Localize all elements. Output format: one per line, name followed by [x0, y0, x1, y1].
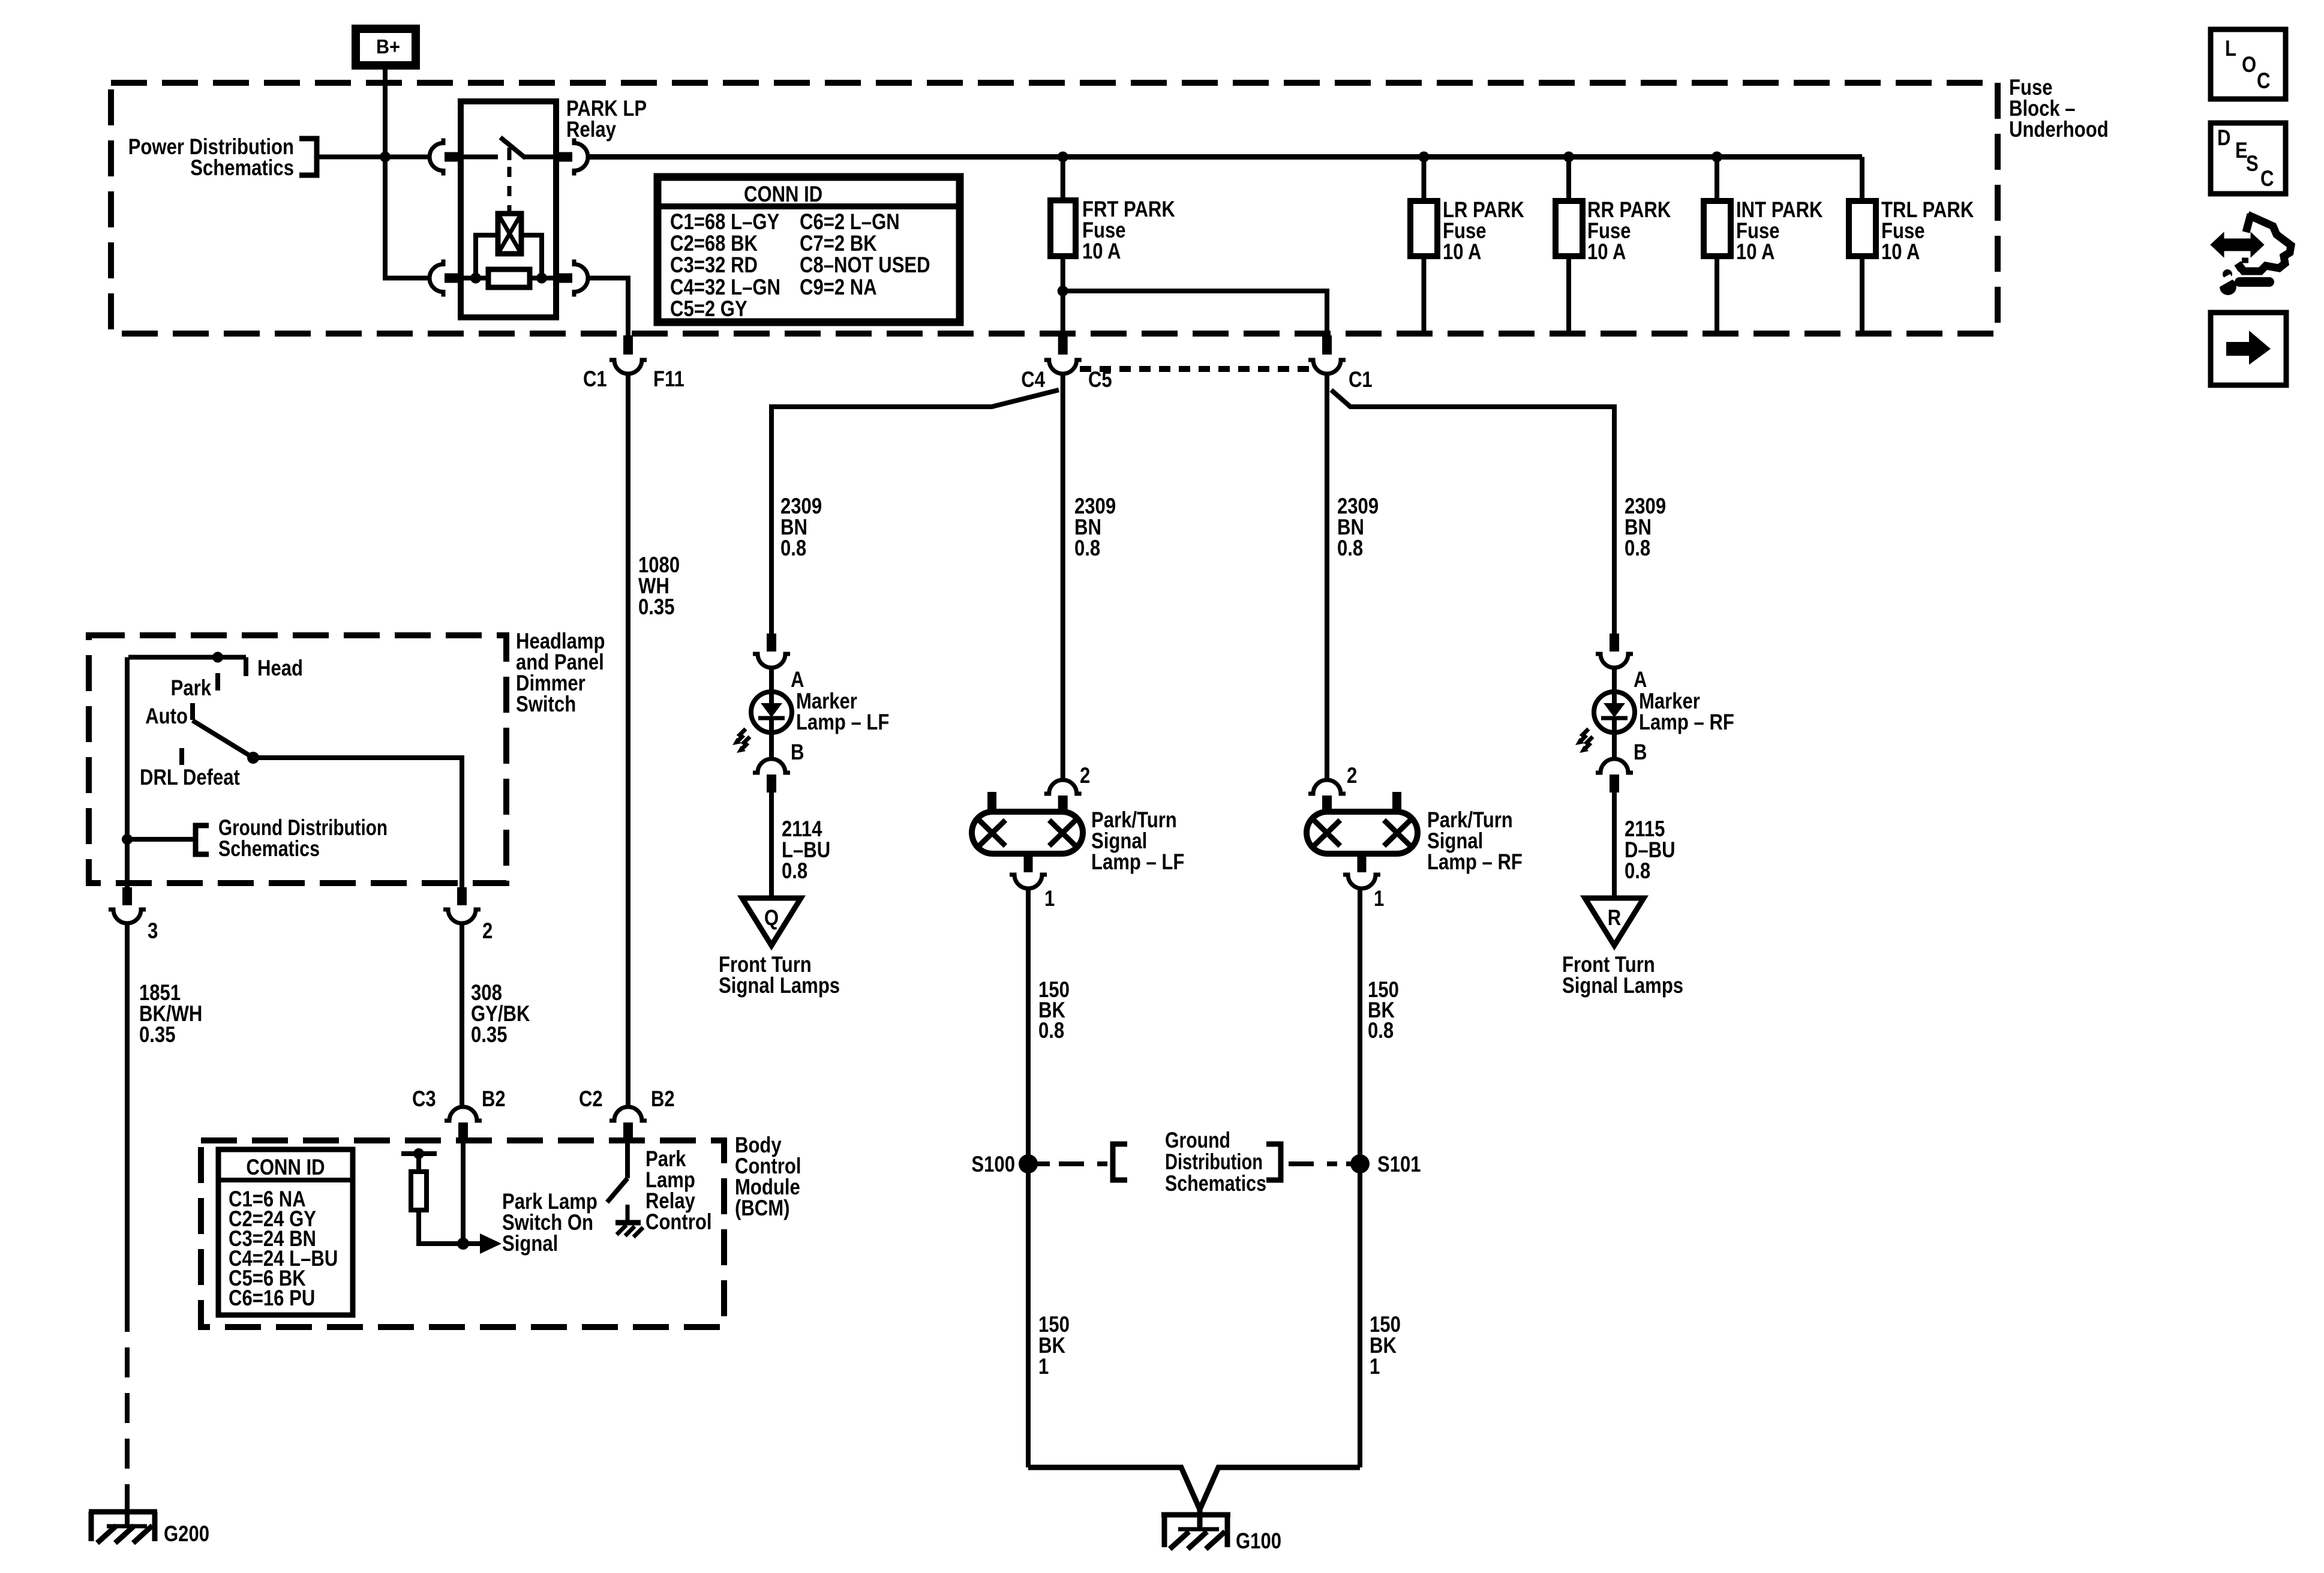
- svg-text:Relay: Relay: [566, 117, 616, 142]
- connector C1/F11 fuse block output: [609, 335, 647, 374]
- svg-text:C2=68 BK: C2=68 BK: [670, 231, 758, 256]
- node ground distribution tap: [122, 834, 133, 845]
- marker lamp LF (LED symbol): [751, 692, 792, 733]
- label Ground Distribution Schematics (center): [1165, 1128, 1266, 1196]
- arrow park lamp switch on signal: [480, 1233, 502, 1254]
- svg-text:1: 1: [1044, 886, 1055, 911]
- node main B+ junction: [380, 152, 391, 163]
- svg-text:C6=16 PU: C6=16 PU: [229, 1286, 315, 1310]
- label LR PARK Fuse 10 A: [1443, 197, 1524, 264]
- connector B marker lamp LF: [753, 759, 790, 792]
- svg-text:Park: Park: [171, 676, 212, 700]
- label Marker Lamp - RF: [1639, 689, 1734, 734]
- svg-text:B: B: [1634, 740, 1647, 764]
- svg-text:C2: C2: [579, 1086, 603, 1111]
- label Park/Turn Signal Lamp - RF: [1427, 807, 1523, 874]
- svg-text:DRL Defeat: DRL Defeat: [140, 765, 240, 789]
- connector relay pin 1 (switch input): [430, 139, 461, 176]
- node below FRT PARK fuse: [1058, 286, 1068, 296]
- wire 1851 dashed part: [125, 1347, 130, 1495]
- svg-text:Ground: Ground: [1165, 1128, 1230, 1152]
- LR PARK fuse: [1410, 152, 1437, 334]
- label Park/Turn Signal Lamp - LF: [1091, 807, 1184, 874]
- BCM pull-up resistor: [401, 1148, 480, 1244]
- wire 2115 to R: [1612, 792, 1617, 900]
- svg-text:F11: F11: [653, 367, 684, 391]
- svg-text:C5=2 GY: C5=2 GY: [670, 296, 747, 321]
- headlamp and panel dimmer switch dashed box: [89, 635, 506, 883]
- off-page triangle R: [1585, 898, 1644, 945]
- label Front Turn Signal Lamps (right): [1562, 952, 1683, 998]
- icon forward arrow box: [2211, 313, 2286, 385]
- svg-text:1: 1: [1374, 886, 1384, 911]
- connector 1 park/turn RF: [1343, 853, 1380, 888]
- connector 3 headlamp switch: [109, 887, 146, 923]
- svg-text:C9=2 NA: C9=2 NA: [800, 275, 877, 299]
- svg-text:0.8: 0.8: [1337, 536, 1363, 560]
- svg-text:C: C: [2260, 166, 2274, 191]
- label wire 150 BK 0.8 (LF): [1038, 977, 1070, 1043]
- svg-text:D: D: [2217, 125, 2231, 150]
- bracket for power distribution reference: [299, 139, 317, 175]
- svg-text:Q: Q: [764, 905, 779, 930]
- svg-text:0.8: 0.8: [1625, 536, 1650, 560]
- wire B+ vertical into fuse block: [385, 70, 428, 278]
- icon vehicle front with arrow and wrench: [2212, 214, 2291, 295]
- label wire 1851 BK/WH 0.35: [139, 980, 202, 1047]
- body control module dashed box: [201, 1140, 724, 1327]
- wire main bus from relay output to fuses: [590, 154, 1862, 160]
- dashed link S100 to ground distribution: [1028, 1161, 1107, 1166]
- node park lamp switch on: [457, 1238, 469, 1250]
- FRT PARK fuse: [1050, 152, 1076, 336]
- svg-text:Lamp – LF: Lamp – LF: [796, 710, 889, 734]
- svg-text:C: C: [2257, 68, 2271, 93]
- lower CONN ID table: [218, 1149, 353, 1315]
- svg-text:A: A: [791, 667, 804, 692]
- label Marker Lamp - LF: [796, 689, 889, 734]
- svg-text:Switch: Switch: [516, 692, 576, 716]
- svg-text:10 A: 10 A: [1587, 239, 1626, 264]
- dashed link ground distribution to S101: [1289, 1161, 1360, 1166]
- icon LOC box: [2211, 29, 2286, 99]
- svg-text:Lamp – RF: Lamp – RF: [1427, 849, 1523, 874]
- svg-text:2: 2: [1080, 763, 1090, 788]
- svg-text:10 A: 10 A: [1736, 239, 1775, 264]
- label wire 308 GY/BK 0.35: [471, 980, 530, 1047]
- wire C2 into BCM: [625, 1139, 630, 1178]
- svg-text:2: 2: [482, 918, 493, 943]
- label Front Turn Signal Lamps (left): [719, 952, 840, 998]
- svg-text:0.35: 0.35: [638, 595, 675, 619]
- wire B2 to park lamp switch-on node: [461, 1139, 466, 1244]
- label INT PARK Fuse 10 A: [1736, 197, 1823, 264]
- svg-text:B2: B2: [651, 1086, 675, 1111]
- svg-text:Lamp – RF: Lamp – RF: [1639, 710, 1734, 734]
- svg-text:0.35: 0.35: [139, 1022, 176, 1047]
- svg-text:G100: G100: [1236, 1529, 1281, 1553]
- off-page triangle Q: [742, 898, 801, 945]
- label Ground Distribution Schematics (switch): [218, 815, 388, 861]
- wire power distribution feed: [317, 155, 428, 160]
- svg-text:C8–NOT USED: C8–NOT USED: [800, 253, 930, 277]
- svg-text:Signal: Signal: [502, 1231, 558, 1256]
- relay switch contacts: [461, 137, 556, 160]
- svg-text:0.8: 0.8: [1074, 536, 1100, 560]
- svg-text:0.35: 0.35: [471, 1022, 508, 1047]
- svg-text:C1=68 L–GY: C1=68 L–GY: [670, 209, 780, 234]
- svg-text:0.8: 0.8: [1368, 1018, 1394, 1043]
- svg-text:C3=32 RD: C3=32 RD: [670, 253, 758, 277]
- svg-text:Auto: Auto: [145, 704, 188, 728]
- splice S100: [971, 1152, 1038, 1176]
- label FRT PARK Fuse 10 A: [1082, 197, 1175, 263]
- relay suppression resistor: [488, 269, 530, 287]
- wire to ground distribution bracket: [127, 837, 196, 842]
- connector C3/B2 BCM: [445, 1107, 482, 1139]
- wire 150 RF down to S101: [1358, 888, 1362, 1467]
- B+ terminal box: [356, 29, 416, 65]
- svg-text:G200: G200: [164, 1521, 209, 1546]
- park/turn signal lamp RF body: [1307, 792, 1418, 854]
- svg-text:Lamp – LF: Lamp – LF: [1091, 849, 1184, 874]
- switch position DRL Defeat: [140, 748, 240, 789]
- INT PARK fuse: [1704, 152, 1731, 334]
- wire relay coil output to F11: [590, 278, 628, 336]
- svg-text:Signal Lamps: Signal Lamps: [719, 973, 840, 998]
- svg-text:1: 1: [1038, 1354, 1049, 1379]
- wire 2114 to Q: [769, 792, 774, 900]
- connector 2 park/turn RF: [1308, 780, 1346, 812]
- relay coil (box with X): [498, 214, 521, 254]
- svg-text:R: R: [1608, 905, 1622, 930]
- wire LED RF to connector B: [1612, 733, 1617, 760]
- fuse block - underhood dashed box: [111, 83, 1998, 334]
- svg-text:Distribution: Distribution: [1165, 1149, 1263, 1174]
- TRL PARK fuse: [1849, 157, 1876, 334]
- LED light arrows RF: [1575, 729, 1593, 753]
- label wire 2309 BN 0.8 (park/turn RF): [1337, 494, 1379, 560]
- wire LED LF to connector B: [769, 733, 774, 760]
- svg-text:CONN ID: CONN ID: [246, 1155, 325, 1179]
- svg-text:2: 2: [1347, 763, 1357, 788]
- ground G100: [1161, 1515, 1230, 1549]
- svg-text:C4: C4: [1021, 367, 1045, 392]
- label wire 2309 BN 0.8 (marker LF): [780, 494, 822, 560]
- label wire 150 BK 1 (left): [1038, 1312, 1070, 1379]
- wire C4 branch to marker lamp LF: [771, 390, 1059, 634]
- bracket ground distribution left: [1113, 1144, 1127, 1180]
- wire 308 down to BCM C3: [460, 923, 464, 1106]
- connector relay pin 3 (switch output): [556, 139, 588, 176]
- wire C1 branch to park/turn RF: [1325, 374, 1329, 780]
- relay coil row wires: [461, 273, 556, 284]
- connector 1 park/turn LF: [1010, 853, 1047, 888]
- wire C5 branch to park/turn LF: [1061, 374, 1065, 780]
- RR PARK fuse: [1556, 152, 1583, 334]
- label wire 150 BK 0.8 (RF): [1368, 977, 1399, 1043]
- svg-text:10 A: 10 A: [1082, 239, 1121, 263]
- svg-text:Schematics: Schematics: [1165, 1171, 1266, 1196]
- wire C1 branch to marker lamp RF: [1331, 390, 1614, 634]
- svg-text:1: 1: [1370, 1354, 1380, 1379]
- relay actuator dashed link: [508, 167, 512, 214]
- bracket ground distribution right: [1266, 1144, 1281, 1180]
- svg-text:C4=32 L–GN: C4=32 L–GN: [670, 275, 780, 299]
- label Fuse Block - Underhood: [2009, 75, 2109, 142]
- svg-text:Schematics: Schematics: [218, 836, 320, 861]
- BCM internal ground: [615, 1205, 643, 1237]
- svg-text:A: A: [1634, 667, 1647, 692]
- svg-text:B2: B2: [482, 1086, 506, 1111]
- svg-text:B: B: [791, 740, 804, 764]
- dotted connector row C5 to C1: [1080, 366, 1311, 372]
- connector C2/B2 BCM: [609, 1107, 647, 1139]
- connector C1 under fuse block right: [1308, 335, 1346, 374]
- wire 1851 solid part: [125, 923, 130, 1332]
- connector relay pin 2 (coil supply): [430, 260, 461, 297]
- switch wiper: [193, 721, 462, 887]
- marker lamp RF (LED symbol): [1594, 692, 1635, 733]
- label wire 2114 L-BU 0.8: [782, 816, 830, 883]
- connector A marker lamp RF: [1596, 634, 1633, 668]
- svg-text:C6=2 L–GN: C6=2 L–GN: [800, 209, 900, 234]
- switch feed wire: [127, 652, 246, 888]
- LED light arrows LF: [732, 729, 750, 753]
- svg-text:10 A: 10 A: [1443, 239, 1482, 264]
- upper CONN ID table: [657, 177, 960, 322]
- connector 2 headlamp switch: [443, 887, 481, 923]
- svg-text:10 A: 10 A: [1881, 239, 1920, 264]
- wire to LED LF: [769, 668, 774, 693]
- label Body Control Module (BCM): [735, 1133, 801, 1220]
- icon DESC box: [2211, 123, 2286, 194]
- svg-text:S101: S101: [1377, 1152, 1421, 1176]
- svg-text:O: O: [2242, 52, 2256, 77]
- label TRL PARK Fuse 10 A: [1881, 197, 1974, 264]
- connector relay pin 4 (coil output): [556, 260, 588, 297]
- label wire 2115 D-BU 0.8: [1625, 816, 1676, 883]
- svg-text:C7=2 BK: C7=2 BK: [800, 231, 877, 256]
- svg-text:0.8: 0.8: [780, 536, 806, 560]
- svg-text:C1: C1: [1349, 367, 1373, 392]
- svg-text:0.8: 0.8: [1038, 1018, 1064, 1043]
- connector 2 park/turn LF: [1044, 780, 1082, 812]
- svg-text:(BCM): (BCM): [735, 1196, 790, 1220]
- svg-text:S: S: [2246, 151, 2259, 176]
- label Headlamp and Panel Dimmer Switch: [516, 629, 605, 716]
- label Park Lamp Relay Control: [645, 1146, 712, 1234]
- relay coil bypass loop: [476, 235, 542, 278]
- svg-text:Schematics: Schematics: [190, 155, 294, 180]
- wire 150 LF down to S100: [1026, 888, 1031, 1467]
- svg-text:Signal Lamps: Signal Lamps: [1562, 973, 1683, 998]
- svg-text:C1: C1: [583, 367, 607, 391]
- switch position Head: [246, 656, 303, 680]
- label PARK LP Relay: [566, 96, 647, 142]
- svg-text:0.8: 0.8: [782, 858, 807, 883]
- label Power Distribution Schematics: [128, 134, 294, 180]
- label wire 150 BK 1 (right): [1370, 1312, 1401, 1379]
- ground G200: [89, 1512, 157, 1543]
- switch position Auto: [145, 703, 193, 728]
- svg-text:Control: Control: [645, 1209, 712, 1234]
- splice S101: [1350, 1152, 1421, 1176]
- svg-text:B+: B+: [376, 35, 400, 58]
- svg-text:Head: Head: [257, 656, 303, 680]
- wire 1080 from F11 down to BCM C2: [626, 374, 630, 1106]
- connector A marker lamp LF: [753, 634, 790, 668]
- bracket ground distribution (switch): [196, 825, 209, 854]
- label RR PARK Fuse 10 A: [1587, 197, 1671, 264]
- svg-text:CONN ID: CONN ID: [744, 182, 822, 206]
- label Park Lamp Switch On Signal: [502, 1189, 597, 1256]
- wire to LED RF: [1612, 668, 1617, 693]
- svg-text:Underhood: Underhood: [2009, 117, 2109, 142]
- wire bottom bus to G100: [1028, 1467, 1360, 1529]
- svg-text:0.8: 0.8: [1625, 858, 1650, 883]
- park lamp relay control switch lever: [607, 1178, 627, 1202]
- svg-text:3: 3: [148, 918, 158, 943]
- label wire 2309 BN 0.8 (park/turn LF): [1074, 494, 1116, 560]
- park/turn signal lamp LF body: [972, 792, 1083, 854]
- switch position Park: [171, 673, 218, 700]
- svg-text:L: L: [2225, 36, 2236, 61]
- wire from FRT PARK fuse to C1: [1063, 291, 1327, 335]
- svg-text:S100: S100: [971, 1152, 1015, 1176]
- label wire 1080 WH 0.35: [638, 553, 680, 619]
- connector C4/C5 under FRT PARK fuse: [1044, 335, 1082, 374]
- svg-text:C3: C3: [412, 1086, 436, 1111]
- relay PARK LP box: [461, 101, 556, 317]
- label wire 2309 BN 0.8 (marker RF): [1625, 494, 1666, 560]
- connector B marker lamp RF: [1596, 759, 1633, 792]
